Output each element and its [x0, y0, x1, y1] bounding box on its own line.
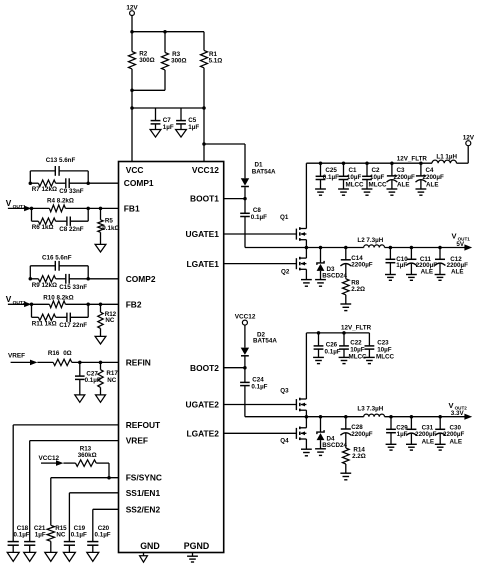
svg-text:REFIN: REFIN [126, 357, 151, 367]
wire comp2 right join [87, 266, 89, 279]
ground C1 earth [338, 189, 349, 195]
svg-text:C15 33nF: C15 33nF [59, 284, 87, 291]
capacitor C9 [56, 178, 89, 195]
wire VOUT2 rail [385, 415, 466, 419]
svg-text:1µF: 1µF [35, 532, 46, 539]
svg-text:1µF: 1µF [397, 431, 408, 438]
resistor R16 [48, 350, 72, 366]
ground R5 [95, 244, 106, 252]
svg-text:Q1: Q1 [280, 214, 289, 221]
svg-text:C13 5.6nF: C13 5.6nF [46, 157, 76, 164]
ground C2 earth [362, 189, 373, 195]
pin REFOUT [126, 420, 161, 430]
svg-text:ALE: ALE [422, 439, 435, 446]
wire fb1 lower branch left [32, 208, 39, 221]
svg-text:C1: C1 [349, 167, 358, 174]
wire Q4 drain [305, 417, 307, 428]
svg-text:0.1µF: 0.1µF [251, 214, 267, 221]
svg-text:ALE: ALE [451, 268, 464, 275]
wire Q3 source to phase node [305, 410, 307, 417]
svg-text:2200µF: 2200µF [423, 174, 445, 181]
svg-text:2.2Ω: 2.2Ω [351, 286, 365, 293]
pin SS2/EN2 [126, 504, 161, 514]
svg-text:360kΩ: 360kΩ [78, 452, 97, 459]
pin COMP1 [124, 178, 154, 188]
svg-text:0.1µF: 0.1µF [95, 532, 111, 539]
svg-text:MLCC: MLCC [376, 354, 395, 361]
pin FB2 [126, 299, 142, 309]
capacitor C3 [387, 163, 416, 189]
capacitor C29 [386, 417, 408, 444]
ground C10 earth [385, 275, 396, 281]
svg-text:COMP1: COMP1 [124, 178, 154, 188]
svg-text:BAT54A: BAT54A [253, 338, 277, 345]
resistor R1 [201, 32, 223, 108]
wire phase node 1 [245, 246, 364, 250]
capacitor C25 [316, 163, 339, 189]
ground C7 [150, 130, 161, 138]
capacitor C10 [386, 248, 409, 275]
wire VCC bypass bus [132, 106, 206, 110]
diode D1 [241, 162, 276, 199]
resistor R11 [32, 314, 57, 328]
wire VCC12 to D1 [204, 144, 245, 178]
node 12V right terminal [463, 134, 475, 145]
svg-text:0.1µF: 0.1µF [325, 348, 341, 355]
node VREF input [8, 353, 53, 366]
ground C3 earth [387, 189, 398, 195]
pin VCC12 [192, 165, 219, 175]
svg-text:300Ω: 300Ω [171, 58, 186, 65]
resistor R6 [32, 218, 56, 231]
pin VCC [126, 165, 144, 175]
resistor R13 [76, 446, 97, 467]
wire Q4 source [305, 439, 307, 449]
ground D4 earth [315, 449, 326, 456]
svg-text:V: V [449, 401, 454, 410]
resistor R12 [98, 304, 117, 336]
resistor R4 [30, 198, 88, 212]
capacitor C8 bootstrap [240, 199, 267, 248]
svg-text:R4 8.2kΩ: R4 8.2kΩ [47, 198, 74, 205]
svg-text:COMP2: COMP2 [126, 274, 156, 284]
wire REFOUT pin [13, 425, 118, 542]
pin VREF [126, 436, 148, 446]
wire fb2 lower branch left [32, 304, 39, 317]
wire top bus [130, 30, 204, 34]
resistor R9 [30, 276, 57, 289]
wire VCC feed [130, 90, 134, 161]
pin LGATE2 [186, 429, 219, 439]
svg-text:0.1µF: 0.1µF [323, 174, 339, 181]
svg-text:GND: GND [140, 541, 160, 551]
capacitor C2 [362, 163, 387, 189]
wire COMP1 pin [29, 181, 119, 185]
ground C5 [176, 130, 187, 138]
capacitor C7 [151, 108, 174, 131]
capacitor C22 [339, 333, 367, 361]
svg-text:MLCC: MLCC [346, 182, 365, 189]
ground PGND pin earth [187, 553, 198, 563]
ground Q4 source earth [301, 449, 312, 456]
resistor R10 [30, 294, 88, 307]
svg-text:UGATE2: UGATE2 [186, 400, 220, 410]
svg-text:2200µF: 2200µF [351, 431, 373, 438]
svg-text:V: V [6, 294, 12, 304]
pin BOOT2 [190, 363, 219, 373]
svg-text:10µF: 10µF [370, 174, 385, 181]
wire FB2 pin [88, 303, 118, 307]
inductor L3 [357, 405, 384, 416]
transistor Q3 [280, 387, 306, 411]
capacitor C17 [56, 313, 89, 330]
ground C12 earth [435, 275, 446, 281]
wire Q2 source [305, 269, 307, 279]
inductor L1 [432, 153, 458, 163]
svg-text:R11 1kΩ: R11 1kΩ [32, 321, 57, 328]
ground R17 [96, 395, 106, 402]
diode D2 [241, 331, 278, 367]
svg-text:L2 7.3µH: L2 7.3µH [357, 237, 383, 244]
ground R8 earth [340, 304, 351, 311]
ground R14 earth [340, 473, 351, 480]
pin BOOT1 [190, 194, 219, 204]
svg-text:PGND: PGND [184, 541, 209, 551]
wire 12V_FLTR rail 2 [306, 325, 371, 335]
svg-text:OUT1: OUT1 [13, 204, 26, 210]
wire FB1 pin [88, 207, 118, 211]
wire VCC12 feed [202, 108, 206, 162]
ground C23 earth [364, 357, 375, 363]
pin UGATE1 [186, 229, 220, 239]
svg-text:VCC: VCC [126, 165, 144, 175]
diode D4 [317, 417, 348, 449]
capacitor C13 [30, 157, 88, 176]
svg-text:SS1/EN1: SS1/EN1 [126, 488, 161, 498]
capacitor C28 [340, 417, 372, 448]
ground GND pin [140, 553, 148, 563]
svg-text:0.1µF: 0.1µF [251, 384, 267, 391]
wire Q2 drain [305, 248, 307, 259]
ground R15 [45, 552, 57, 561]
wire SS2/EN2 pin [93, 509, 119, 541]
svg-text:R10 8.2kΩ: R10 8.2kΩ [43, 294, 73, 301]
svg-text:LGATE2: LGATE2 [186, 429, 219, 439]
svg-text:12V_FLTR: 12V_FLTR [397, 155, 428, 162]
svg-text:R6 1kΩ: R6 1kΩ [32, 224, 54, 231]
resistor R7 [30, 180, 57, 193]
diode D3 [317, 248, 348, 280]
wire BOOT1 pin [224, 197, 247, 201]
svg-text:10µF: 10µF [377, 347, 392, 354]
pin COMP2 [126, 274, 156, 284]
svg-text:R5: R5 [105, 217, 114, 224]
ground C25 earth [315, 189, 326, 195]
svg-text:BOOT1: BOOT1 [190, 194, 219, 204]
svg-text:0.1µF: 0.1µF [14, 532, 30, 539]
svg-text:D1: D1 [255, 162, 264, 169]
capacitor C30 [435, 417, 465, 446]
svg-text:10µF: 10µF [350, 347, 365, 354]
svg-text:L3 7.3µH: L3 7.3µH [357, 405, 383, 412]
node VOUT2 sense input [6, 294, 32, 307]
svg-text:REFOUT: REFOUT [126, 420, 161, 430]
svg-text:1µF: 1µF [396, 262, 407, 269]
svg-text:0.1µF: 0.1µF [71, 532, 87, 539]
capacitor C26 [314, 333, 341, 357]
svg-text:2200µF: 2200µF [415, 431, 437, 438]
ground C30 earth [435, 444, 446, 450]
pin GND [140, 541, 160, 551]
svg-text:C8: C8 [253, 207, 262, 214]
svg-text:2200µF: 2200µF [443, 431, 465, 438]
svg-text:0Ω: 0Ω [63, 350, 71, 357]
wire VOUT1 rail [385, 246, 466, 250]
capacitor C1 [339, 163, 364, 189]
wire Q1 source to phase node [305, 240, 307, 248]
svg-text:NC: NC [105, 317, 115, 324]
svg-text:FS/SYNC: FS/SYNC [126, 473, 162, 483]
svg-text:MLCC: MLCC [369, 182, 388, 189]
svg-text:C23: C23 [377, 340, 389, 347]
ground C20 [87, 552, 99, 561]
wire R2-R3 junction [130, 89, 165, 93]
svg-text:LGATE1: LGATE1 [186, 259, 219, 269]
svg-text:ALE: ALE [450, 439, 463, 446]
svg-text:3.3V: 3.3V [451, 410, 465, 417]
resistor R17 [98, 362, 119, 395]
op-amp U1 dual PWM controller IC body [119, 162, 224, 553]
svg-text:OUT2: OUT2 [13, 300, 26, 306]
node VOUT2 output arrow [449, 401, 473, 420]
svg-text:L1 1µH: L1 1µH [436, 153, 457, 160]
svg-text:300Ω: 300Ω [139, 57, 154, 64]
wire REFIN pin [72, 361, 119, 365]
svg-text:R9 12kΩ: R9 12kΩ [32, 282, 57, 289]
svg-text:9.1kΩ: 9.1kΩ [102, 225, 119, 232]
svg-text:C4: C4 [426, 167, 435, 174]
wire Q3 drain [305, 333, 307, 399]
resistor R14 [343, 447, 366, 473]
svg-text:VREF: VREF [126, 436, 148, 446]
svg-text:C17 22nF: C17 22nF [59, 322, 87, 329]
wire fb1 lower branch right [86, 207, 90, 222]
wire VCC12 to D2 [244, 325, 246, 348]
inductor L2 [357, 237, 384, 247]
transistor Q1 [280, 214, 306, 241]
capacitor C12 [435, 248, 469, 276]
capacitor C4 [416, 163, 445, 189]
wire UGATE1 pin [224, 233, 297, 235]
svg-text:C22: C22 [350, 340, 362, 347]
svg-text:12V_FLTR: 12V_FLTR [341, 325, 372, 332]
resistor R3 [162, 32, 187, 91]
svg-text:5V: 5V [456, 241, 464, 248]
capacitor C19 [64, 525, 87, 552]
svg-text:ALE: ALE [397, 182, 410, 189]
svg-text:C8 22nF: C8 22nF [59, 226, 83, 233]
ground Q2 source earth [301, 280, 312, 287]
svg-text:V: V [452, 232, 457, 241]
svg-text:C25: C25 [325, 167, 337, 174]
resistor R5 [98, 208, 120, 244]
svg-text:1µF: 1µF [163, 124, 174, 131]
svg-text:C26: C26 [326, 341, 338, 348]
svg-text:BSCD24: BSCD24 [322, 442, 347, 449]
svg-text:Q3: Q3 [280, 387, 289, 394]
wire VREF pin [30, 441, 119, 542]
svg-text:2.2Ω: 2.2Ω [352, 453, 366, 460]
svg-text:R16: R16 [48, 350, 60, 357]
node 12V input terminal [126, 5, 138, 16]
capacitor C21 [24, 525, 46, 552]
wire R13 to FS/SYNC [96, 463, 111, 479]
svg-text:1µF: 1µF [188, 124, 199, 131]
svg-text:Q4: Q4 [280, 438, 289, 445]
svg-text:UGATE1: UGATE1 [186, 229, 220, 239]
svg-text:BSCD24: BSCD24 [322, 273, 347, 280]
ground C26 earth [313, 357, 324, 363]
svg-text:C2: C2 [372, 167, 381, 174]
node VCC12 terminal channel 2 [235, 314, 256, 326]
svg-text:VCC12: VCC12 [235, 314, 256, 321]
svg-text:5.1Ω: 5.1Ω [209, 58, 223, 65]
capacitor C14 [340, 248, 372, 279]
capacitor C8 feedback [56, 217, 89, 233]
svg-text:10µF: 10µF [347, 174, 362, 181]
ground C22 earth [339, 357, 350, 363]
svg-text:V: V [6, 198, 12, 208]
wire Q1 drain [305, 163, 307, 228]
transistor Q2 [281, 257, 306, 276]
svg-text:VCC12: VCC12 [192, 165, 219, 175]
wire 12V_FLTR rail 1 [306, 155, 432, 165]
node VOUT1 sense input [6, 198, 32, 211]
resistor R2 [129, 32, 155, 91]
wire SS1/EN1 pin [69, 493, 118, 542]
svg-text:C9 33nF: C9 33nF [59, 188, 83, 195]
pin UGATE2 [186, 400, 220, 410]
ground C19 [63, 552, 75, 561]
capacitor C31 [406, 417, 437, 446]
wire fb2 lower branch right [86, 303, 90, 318]
ground C18 [7, 552, 19, 561]
wire comp1 right join [87, 171, 89, 183]
wire comp2 left join [29, 266, 31, 279]
wire LGATE2 pin [224, 432, 297, 434]
svg-text:FB2: FB2 [126, 299, 142, 309]
capacitor C18 [8, 525, 30, 552]
svg-text:VREF: VREF [8, 353, 25, 360]
capacitor C15 [56, 274, 89, 291]
capacitor C16 [30, 254, 88, 270]
ground C29 earth [386, 444, 397, 450]
pin REFIN [126, 357, 151, 367]
svg-text:ALE: ALE [426, 182, 439, 189]
resistor R15 [47, 525, 67, 552]
wire comp1 left join [29, 171, 31, 183]
resistor R8 [343, 279, 366, 304]
ground R12 [95, 336, 106, 344]
wire COMP2 pin [29, 277, 119, 281]
capacitor C23 [365, 333, 395, 361]
svg-text:Q2: Q2 [281, 269, 290, 276]
pin LGATE1 [186, 259, 219, 269]
wire 12V stem [131, 16, 133, 32]
node VOUT1 output arrow [452, 232, 473, 251]
wire L1 to 12V [457, 146, 469, 164]
transistor Q4 [280, 427, 306, 445]
ground C11 earth [406, 275, 417, 281]
pin FB1 [124, 203, 140, 213]
capacitor C27 [75, 362, 101, 395]
svg-text:SS2/EN2: SS2/EN2 [126, 504, 161, 514]
svg-text:NC: NC [107, 377, 117, 384]
wire BOOT2 pin [224, 366, 247, 370]
capacitor C11 [406, 248, 437, 276]
pin PGND [184, 541, 209, 551]
svg-text:C24: C24 [252, 376, 264, 383]
capacitor C20 [87, 525, 111, 552]
svg-text:BAT54A: BAT54A [252, 169, 276, 176]
ground C21 [24, 552, 36, 561]
wire FS/SYNC pin [51, 478, 119, 526]
ground C31 earth [406, 444, 417, 450]
wire LGATE1 pin [224, 263, 297, 265]
pin SS1/EN1 [126, 488, 161, 498]
svg-text:BOOT2: BOOT2 [190, 363, 219, 373]
svg-text:C3: C3 [397, 167, 406, 174]
wire phase node 2 [245, 415, 364, 419]
svg-text:2200µF: 2200µF [351, 262, 373, 269]
svg-text:NC: NC [56, 532, 66, 539]
svg-text:FB1: FB1 [124, 203, 140, 213]
svg-text:C16 5.6nF: C16 5.6nF [42, 254, 72, 261]
ground C27 [75, 395, 85, 402]
ground C4 earth [416, 189, 427, 195]
wire UGATE2 pin [224, 404, 297, 406]
pin FS/SYNC [126, 473, 162, 483]
svg-text:2200µF: 2200µF [394, 174, 416, 181]
capacitor C24 [240, 368, 268, 417]
node VCC12 feed to R13 [39, 455, 76, 466]
svg-text:R7 12kΩ: R7 12kΩ [32, 186, 57, 193]
svg-text:ALE: ALE [421, 268, 434, 275]
capacitor C5 [176, 108, 199, 131]
ground D3 earth [315, 280, 326, 287]
